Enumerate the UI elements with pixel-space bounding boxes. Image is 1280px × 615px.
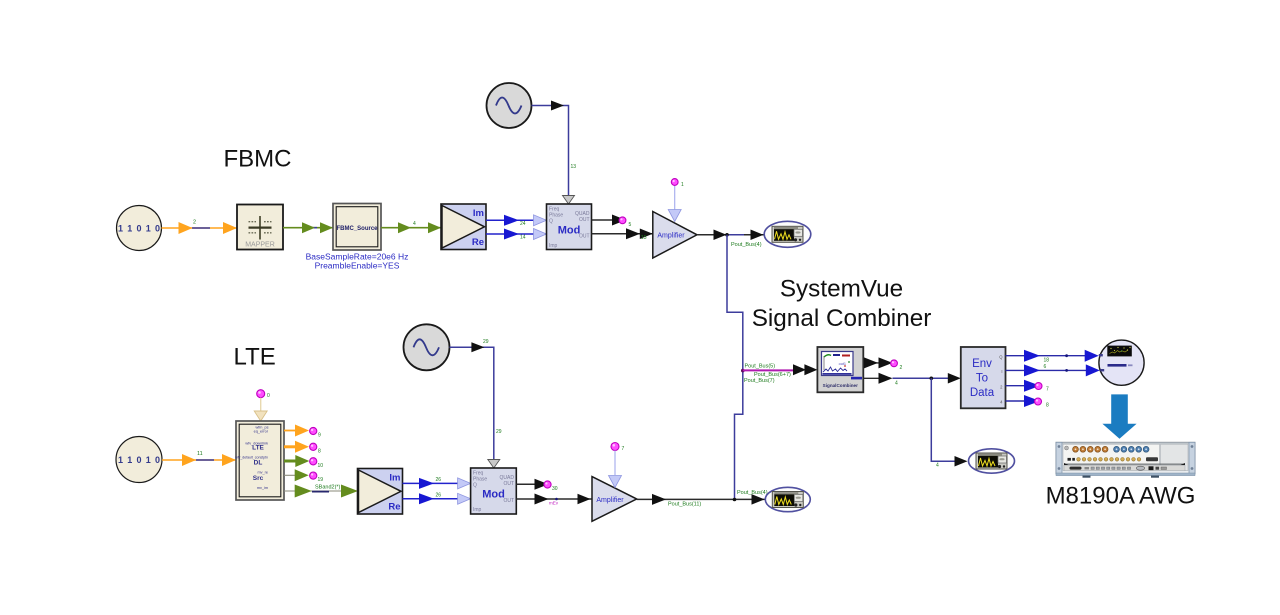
section label LTE bbox=[234, 344, 276, 371]
svg-text:Signal Combiner: Signal Combiner bbox=[752, 305, 932, 332]
net labels at node N2 bbox=[744, 363, 791, 384]
svg-text:I: I bbox=[1001, 369, 1002, 374]
svg-text:OUT: OUT bbox=[579, 234, 590, 240]
section label SystemVue Signal Combiner bbox=[752, 276, 932, 332]
svg-text:Re: Re bbox=[388, 502, 400, 513]
wire ENV.out2 to SCOPE bbox=[1006, 364, 1100, 376]
svg-text:1: 1 bbox=[681, 182, 684, 188]
svg-text:10: 10 bbox=[318, 463, 324, 469]
spectrum analyzer SPEC1 bbox=[764, 221, 811, 247]
svg-text:OUT: OUT bbox=[503, 481, 514, 487]
junction node N4 bbox=[930, 377, 934, 381]
svg-text:DL: DL bbox=[254, 460, 263, 467]
sink marker M2 on AMP1 gain port bbox=[668, 179, 684, 222]
wire U3.Re to MOD1 bbox=[486, 229, 547, 241]
svg-text:wfv_default_constptn: wfv_default_constptn bbox=[235, 456, 268, 460]
sink marker M11 bbox=[544, 481, 558, 492]
svg-text:15: 15 bbox=[641, 235, 647, 241]
svg-text:4: 4 bbox=[895, 381, 898, 387]
section label FBMC bbox=[224, 146, 292, 173]
svg-text:7: 7 bbox=[622, 446, 625, 452]
svg-text:8: 8 bbox=[1046, 403, 1049, 409]
modulator MOD2 bbox=[471, 468, 517, 514]
block LTE_DL_Src bbox=[235, 421, 284, 500]
svg-text:1 1 0 1 0: 1 1 0 1 0 bbox=[118, 455, 160, 465]
wire U3.Im to MOD1 bbox=[486, 215, 547, 227]
svg-text:Imp: Imp bbox=[549, 243, 558, 249]
wire MAPPER to FBMC_Source bbox=[283, 222, 333, 233]
svg-text:Im: Im bbox=[389, 473, 400, 484]
wire ENV.out3 to sink M4 bbox=[1006, 380, 1041, 392]
svg-text:Mod: Mod bbox=[558, 225, 581, 237]
wire COMB.out1 to sink M3 bbox=[863, 357, 892, 368]
wire ENV.out4 to sink M5 bbox=[1006, 395, 1041, 407]
svg-text:OUT: OUT bbox=[579, 217, 590, 223]
svg-text:Q: Q bbox=[473, 483, 477, 489]
svg-text:MAPPER: MAPPER bbox=[245, 241, 275, 248]
svg-text:2: 2 bbox=[193, 220, 196, 226]
sink marker M4 bbox=[1035, 383, 1049, 393]
wire U6.Re to MOD2 bbox=[403, 492, 471, 504]
svg-text:Src: Src bbox=[253, 475, 264, 482]
svg-text:Pout_Bus(11): Pout_Bus(11) bbox=[668, 502, 701, 508]
svg-text:26: 26 bbox=[436, 477, 442, 483]
svg-text:Amplifier: Amplifier bbox=[596, 497, 624, 504]
instrument M8190A AWG module bbox=[1056, 442, 1195, 477]
sink marker M12 on AMP2 gain port bbox=[609, 443, 625, 488]
svg-text:19: 19 bbox=[318, 477, 324, 483]
wire LTE.p3 to sink M9 bbox=[284, 455, 309, 467]
amplifier AMP2 bbox=[592, 477, 637, 522]
svg-text:PreambleEnable=YES: PreambleEnable=YES bbox=[315, 261, 400, 271]
svg-text:6: 6 bbox=[1044, 364, 1047, 370]
svg-text:Re: Re bbox=[472, 237, 484, 248]
svg-text:SystemVue: SystemVue bbox=[780, 276, 903, 303]
wire SINE1 to MOD1.Freq bbox=[532, 101, 577, 205]
wire N2 to COMB input bbox=[743, 364, 818, 375]
oscillator SINE1 bbox=[487, 83, 532, 128]
sink marker M3 bbox=[891, 360, 903, 371]
svg-text:1 1 0 1 0: 1 1 0 1 0 bbox=[118, 224, 160, 234]
svg-text:Imp: Imp bbox=[473, 507, 482, 513]
svg-text:18: 18 bbox=[1044, 358, 1050, 364]
svg-text:13: 13 bbox=[571, 164, 577, 170]
wire COMB.out2 to ENV input / node N4 bbox=[863, 373, 961, 387]
wire ENV.out1 to SCOPE bbox=[1006, 350, 1099, 364]
svg-text:4: 4 bbox=[413, 221, 416, 227]
svg-text:Pout_Bus(7): Pout_Bus(7) bbox=[744, 378, 775, 384]
modulator MOD1 bbox=[547, 204, 592, 250]
svg-text:24: 24 bbox=[520, 221, 526, 227]
bit source B2 (11010) bbox=[116, 437, 162, 483]
svg-text:OUT: OUT bbox=[503, 498, 514, 504]
svg-text:M8190A AWG: M8190A AWG bbox=[1046, 483, 1196, 510]
svg-text:Pout_Bus(5): Pout_Bus(5) bbox=[745, 363, 776, 369]
wire B2 to LTE_DL_Src bbox=[162, 451, 236, 466]
svg-text:mv_re: mv_re bbox=[257, 471, 268, 475]
wire N4 down to SPEC3 bbox=[931, 378, 967, 468]
svg-text:FBMC: FBMC bbox=[224, 146, 292, 173]
wire LTE.p4 to sink M10 bbox=[284, 469, 309, 481]
svg-text:LTE: LTE bbox=[234, 344, 276, 371]
svg-text:8: 8 bbox=[318, 449, 321, 455]
svg-text:7: 7 bbox=[1046, 387, 1049, 393]
svg-text:30: 30 bbox=[552, 486, 558, 492]
svg-text:To: To bbox=[976, 373, 988, 385]
svg-text:5: 5 bbox=[629, 222, 632, 228]
wire MOD1.OUT to AMP1 bbox=[592, 228, 653, 241]
wire MOD2.OUT to AMP2 bbox=[516, 494, 592, 506]
wire B1 to MAPPER bbox=[162, 220, 238, 235]
oscillator SINE2 bbox=[404, 324, 450, 370]
svg-text:Q: Q bbox=[549, 219, 553, 225]
sink marker M1 bbox=[619, 217, 631, 228]
sink marker M7 bbox=[310, 427, 321, 438]
wire LTE.p2 to sink M8 bbox=[284, 441, 309, 453]
block MAPPER bbox=[237, 205, 283, 250]
svg-text:LTE: LTE bbox=[252, 445, 264, 452]
wire MOD2.QUADOUT to sink M11 bbox=[516, 479, 548, 490]
splitter U3 (complex to Im/Re) bbox=[441, 204, 486, 250]
sink marker M6 on LTE_DL_Src top port bbox=[254, 390, 270, 421]
bit source B1 (11010) bbox=[117, 206, 162, 251]
svg-text:FBMC_Source: FBMC_Source bbox=[336, 226, 378, 232]
svg-text:9: 9 bbox=[318, 433, 321, 439]
svg-text:26: 26 bbox=[436, 492, 442, 498]
svg-text:2: 2 bbox=[900, 365, 903, 371]
junction node N1 bbox=[725, 233, 729, 237]
svg-text:4: 4 bbox=[936, 463, 939, 469]
svg-text:SignalCombiner: SignalCombiner bbox=[823, 383, 858, 388]
wire AMP1 to SPEC1 / node N1 bbox=[697, 230, 764, 248]
svg-text:0: 0 bbox=[267, 393, 270, 399]
svg-text:out1: out1 bbox=[839, 362, 846, 366]
svg-text:Mod: Mod bbox=[482, 489, 505, 501]
wire LTE.p5 to splitter U6 bbox=[284, 485, 358, 498]
wire SINE2 to MOD2.Freq bbox=[450, 339, 502, 468]
sink marker M8 bbox=[310, 443, 321, 454]
svg-text:Amplifier: Amplifier bbox=[657, 233, 685, 240]
block ENV EnvToData bbox=[961, 347, 1006, 408]
wire U6.Im to MOD2 bbox=[403, 477, 471, 489]
svg-text:SBand2(*): SBand2(*) bbox=[315, 485, 341, 491]
spectrum analyzer SPEC3 bbox=[969, 449, 1015, 473]
wire FBMC_Source to splitter U3 bbox=[381, 221, 441, 233]
svg-text:eq_error: eq_error bbox=[254, 430, 269, 434]
wire MOD1.QUADOUT to sink M1 bbox=[592, 215, 627, 226]
svg-text:14: 14 bbox=[520, 235, 526, 241]
junction node N3 bbox=[733, 498, 737, 502]
svg-text:mv_im: mv_im bbox=[257, 486, 268, 490]
value label BaseSampleRate / PreambleEnable bbox=[306, 252, 409, 271]
bus wire N1 to N2 to N3 (vertical) bbox=[727, 235, 743, 500]
instrument SCOPE (soft front panel) bbox=[1099, 340, 1144, 385]
svg-text:mEv: mEv bbox=[549, 501, 559, 506]
block FBMC_Source bbox=[333, 204, 381, 251]
block COMB SignalCombiner bbox=[817, 347, 863, 392]
svg-text:Env: Env bbox=[972, 358, 992, 370]
spectrum analyzer SPEC2 bbox=[765, 487, 810, 511]
svg-text:11: 11 bbox=[197, 451, 203, 457]
svg-text:Im: Im bbox=[473, 208, 484, 219]
wire LTE.p1 to sink M7 bbox=[284, 425, 309, 437]
wire AMP2 to SPEC2 / node N3 bbox=[637, 490, 768, 508]
sink marker M10 bbox=[310, 472, 324, 483]
svg-text:29: 29 bbox=[496, 429, 502, 435]
svg-text:Data: Data bbox=[970, 387, 995, 399]
big blue arrow to AWG bbox=[1102, 394, 1136, 438]
splitter U6 (complex to Im/Re) bbox=[358, 469, 403, 515]
svg-text:Pout_Bus(4): Pout_Bus(4) bbox=[731, 242, 762, 248]
label M8190A AWG bbox=[1046, 483, 1196, 510]
svg-text:Pout_Bus(4): Pout_Bus(4) bbox=[737, 490, 768, 496]
sink marker M9 bbox=[310, 458, 324, 469]
junction node N2 (combiner tap) bbox=[741, 369, 745, 373]
sink marker M5 bbox=[1035, 398, 1050, 409]
amplifier AMP1 bbox=[653, 212, 697, 259]
svg-text:29: 29 bbox=[483, 339, 489, 345]
